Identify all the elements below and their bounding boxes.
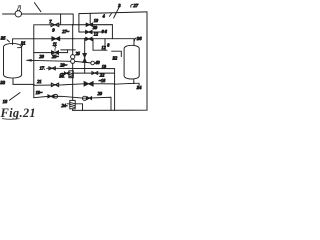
wire row1 [34, 25, 113, 39]
valve 19 [48, 95, 54, 98]
svg-text:32: 32 [113, 55, 118, 60]
pump label 2 squiggle [18, 6, 21, 11]
wire 52 row [34, 52, 68, 54]
tank 31 [4, 43, 22, 78]
wire vert 72 [72, 25, 74, 55]
wire row3 [13, 38, 134, 40]
svg-text:25~: 25~ [52, 54, 59, 59]
valve 21 [51, 83, 58, 87]
wire right bus [114, 69, 116, 111]
valve 11 [52, 37, 60, 41]
leader 3 [114, 7, 120, 18]
wire box3 mid [104, 39, 106, 51]
wire row2 [79, 31, 106, 33]
filter 24 [70, 100, 75, 108]
wire box1 right [72, 14, 74, 25]
valve 25 [52, 51, 59, 54]
svg-text:29~: 29~ [60, 63, 67, 68]
leader 35 [7, 40, 9, 42]
gauge 40 [91, 61, 95, 65]
wire row21 right [115, 82, 134, 85]
valve 16 [87, 97, 92, 100]
svg-text:~18: ~18 [99, 78, 106, 83]
wire bottom border [73, 109, 147, 111]
wire jog [68, 50, 76, 53]
svg-text:12: 12 [94, 31, 98, 36]
wire top main [22, 13, 73, 15]
leader 36 hook [134, 38, 136, 41]
svg-text:31: 31 [21, 40, 26, 45]
wire box1 left [60, 14, 62, 25]
valve 23 [84, 82, 93, 86]
wire box3 bottom [93, 49, 107, 51]
svg-text:8: 8 [107, 42, 110, 47]
svg-text:33: 33 [0, 80, 5, 85]
svg-text:9: 9 [52, 27, 55, 32]
svg-text:36: 36 [137, 36, 142, 41]
svg-text:Fig.21: Fig.21 [0, 106, 36, 120]
wire left bus vertical [33, 25, 35, 53]
wire tank31 outlet [13, 79, 34, 85]
valve row2 [86, 30, 92, 33]
valve 17 [49, 67, 55, 70]
wire seg49 [61, 49, 68, 51]
wire tank32 outlet [134, 79, 139, 86]
break squiggle [61, 73, 66, 74]
svg-text:20: 20 [39, 54, 44, 59]
wire row21 [34, 84, 115, 86]
leader 4 [109, 14, 111, 17]
valve 22 [92, 72, 98, 75]
svg-text:21: 21 [37, 79, 41, 84]
svg-text:3: 3 [118, 3, 121, 8]
svg-text:20: 20 [98, 91, 103, 96]
wire vert 72 low [72, 63, 74, 100]
svg-text:30.: 30. [59, 73, 64, 78]
wire right tank inlet [133, 39, 135, 46]
wire left tank inlet [12, 39, 14, 45]
arrow 20 [27, 60, 71, 61]
gauge 16 [82, 96, 86, 100]
svg-text:18: 18 [3, 99, 8, 104]
valve 7 [51, 23, 59, 27]
wire left bus low [33, 53, 35, 98]
svg-text:10: 10 [94, 18, 99, 23]
gauge 19 [54, 94, 58, 98]
junction dots [33, 24, 135, 85]
wire right border [146, 12, 148, 110]
wire row30 [61, 72, 69, 74]
wire box2 right [89, 13, 91, 24]
trap circle B [71, 59, 75, 63]
leader 1 [34, 3, 41, 12]
svg-text:0 6: 0 6 [102, 29, 108, 34]
svg-text:27: 27 [133, 3, 138, 8]
wire box2 left [78, 14, 80, 32]
svg-text:35: 35 [1, 36, 6, 41]
wire box3 left [92, 39, 94, 51]
wire 32 stub [112, 51, 122, 56]
leader 27 hook [131, 4, 133, 7]
wire row17 [47, 67, 115, 69]
svg-text:27~: 27~ [62, 29, 69, 34]
wire arrow cont [75, 61, 91, 63]
filter 30 [69, 71, 73, 78]
leader 31 hook [18, 45, 23, 48]
wire vert 83 [84, 39, 86, 73]
pump P [15, 11, 21, 17]
svg-text:39: 39 [93, 25, 98, 30]
wire top-left [3, 13, 16, 15]
tank 32 [124, 45, 139, 79]
svg-text:4: 4 [103, 13, 105, 18]
svg-text:25: 25 [76, 51, 80, 56]
svg-text:40: 40 [95, 60, 100, 65]
valve 25 stem [54, 46, 56, 51]
svg-text:19~: 19~ [36, 90, 43, 95]
valve 30a [64, 72, 69, 75]
wire row19 [34, 96, 111, 110]
wire top right segment [79, 12, 147, 14]
svg-text:34: 34 [137, 85, 142, 90]
trap circle A [71, 55, 75, 59]
valve row3 right [86, 37, 92, 40]
wire row22 [73, 72, 114, 74]
wire row24 [67, 104, 82, 111]
svg-text:17.: 17. [40, 66, 46, 71]
valve vertical 83 [83, 53, 87, 58]
valve 39 [86, 23, 92, 26]
